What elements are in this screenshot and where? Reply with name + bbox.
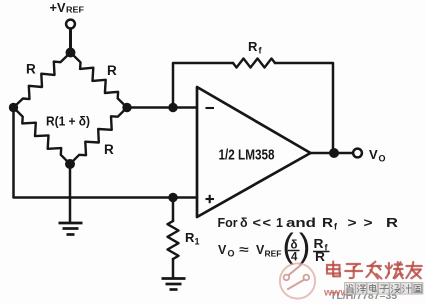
svg-text:R: R	[314, 237, 324, 251]
svg-text:R: R	[248, 39, 258, 54]
svg-text:f: f	[259, 46, 263, 56]
svg-text:δ: δ	[240, 216, 248, 230]
svg-text:1: 1	[195, 237, 200, 247]
svg-text:O: O	[379, 154, 386, 164]
svg-text:<: <	[253, 216, 262, 230]
svg-text:R: R	[185, 230, 195, 245]
svg-text:R(1 + δ): R(1 + δ)	[46, 114, 90, 129]
svg-text:For: For	[218, 216, 238, 230]
svg-text:>: >	[364, 216, 373, 230]
svg-text:<: <	[263, 216, 272, 230]
svg-text:REF: REF	[66, 6, 84, 15]
svg-text:R: R	[386, 216, 398, 230]
svg-text:V: V	[218, 243, 227, 257]
svg-text:R: R	[26, 62, 36, 77]
svg-text:O: O	[228, 249, 235, 259]
svg-text:+V: +V	[50, 0, 66, 15]
svg-text:): )	[299, 228, 310, 266]
svg-text:REF: REF	[265, 249, 282, 259]
svg-text:R: R	[104, 142, 114, 157]
svg-text:V: V	[369, 147, 378, 162]
svg-text:≈: ≈	[239, 243, 249, 257]
svg-text:4: 4	[291, 252, 298, 264]
svg-text:R: R	[322, 216, 333, 230]
svg-text:1/2 LM358: 1/2 LM358	[219, 147, 275, 164]
svg-text:>: >	[348, 216, 357, 230]
svg-text:R: R	[107, 63, 117, 78]
svg-text:f: f	[334, 222, 338, 232]
svg-text:δ: δ	[291, 240, 298, 252]
